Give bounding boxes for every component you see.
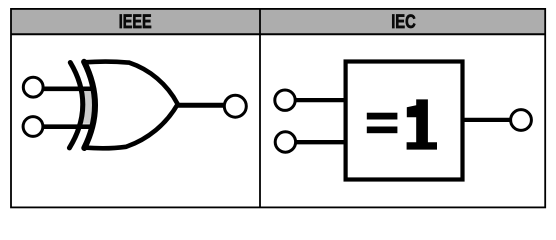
shaded gap between XOR input arcs — [80, 92, 97, 124]
XOR gate U1 body (IEEE symbol) — [84, 62, 177, 149]
input terminal A (IEC) — [275, 90, 295, 110]
wire output Y (IEC) — [462, 118, 510, 122]
output terminal Y (IEEE) — [224, 95, 246, 117]
label =1 : equals bottom bar — [367, 127, 398, 134]
wire input B (IEC) — [295, 140, 346, 144]
label =1 : equals top bar — [367, 113, 398, 120]
wire input B (IEEE) — [42, 124, 95, 129]
wire output Y (IEEE) — [175, 103, 226, 108]
input terminal B (IEEE) — [23, 117, 43, 137]
output terminal Y (IEC) — [511, 110, 532, 131]
XOR gate back arc — [84, 62, 95, 148]
label =1 : digit 1 — [407, 99, 437, 149]
svg-text:IEEE: IEEE — [119, 12, 152, 33]
input terminal B (IEC) — [275, 132, 295, 152]
wire input A (IEC) — [295, 98, 346, 102]
XOR exclusive input arc — [69, 63, 82, 148]
header row background — [11, 9, 545, 34]
svg-text:IEC: IEC — [391, 12, 416, 33]
XOR gate U2 box (IEC symbol) — [346, 62, 463, 180]
input terminal A (IEEE) — [23, 77, 43, 97]
wire input A (IEEE) — [42, 87, 97, 92]
